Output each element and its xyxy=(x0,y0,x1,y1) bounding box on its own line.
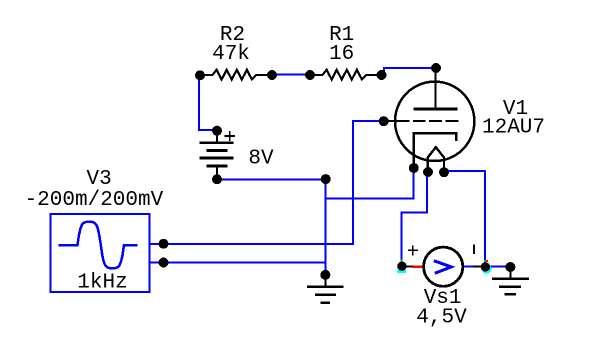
svg-text:V3: V3 xyxy=(86,168,111,191)
node V3 minus terminal xyxy=(159,258,169,268)
wire grid to V3 plus output xyxy=(165,121,382,244)
svg-text:4,5V: 4,5V xyxy=(416,307,467,330)
wire R2 left to battery plus xyxy=(199,78,215,130)
Vs1 minus terminal cyan highlight xyxy=(482,264,492,274)
battery plus sign xyxy=(225,131,235,141)
svg-text:1kHz: 1kHz xyxy=(77,272,127,295)
wire V3 plus stub xyxy=(150,243,162,245)
triode V1 anode lead xyxy=(435,68,437,109)
wire red segment Vs1 plus lead xyxy=(413,266,424,268)
resistor R2 xyxy=(203,70,269,80)
node anode pin xyxy=(431,63,441,73)
source Vs1 body xyxy=(424,247,463,286)
wire cathode to ground rail xyxy=(327,170,414,199)
node R2 pin 1 xyxy=(195,70,205,80)
wire Vs1 minus lead xyxy=(463,266,474,268)
triode V1 anode plate xyxy=(414,108,458,111)
node battery plus terminal xyxy=(212,126,222,136)
svg-text:47k: 47k xyxy=(212,43,250,66)
wire R1 right to anode node xyxy=(384,68,436,73)
Vs1 minus sign xyxy=(473,244,475,254)
wire R2 right to R1 left xyxy=(274,74,309,76)
node cathode pin xyxy=(409,163,419,173)
triode V1 heater xyxy=(428,147,444,170)
node Vs1 minus terminal xyxy=(481,262,490,271)
node R1 pin 1 xyxy=(305,70,315,80)
node battery minus terminal xyxy=(212,174,222,184)
ground right xyxy=(492,268,529,294)
wire colour marks at Vs1 minus xyxy=(484,260,486,262)
ground middle xyxy=(307,276,344,303)
source V3 box xyxy=(51,214,150,292)
wire black stub Vs1 plus terminal xyxy=(407,266,414,268)
wire heater pin2 to Vs1 minus xyxy=(446,171,485,263)
battery 8V xyxy=(199,133,233,177)
wire V3 minus to ground rail xyxy=(150,262,327,264)
node heater pin 2 xyxy=(439,167,449,177)
node junction battery minus / ground rail xyxy=(321,174,331,184)
wire black stub Vs1 minus terminal xyxy=(473,266,481,268)
svg-text:12AU7: 12AU7 xyxy=(482,117,545,140)
node Vs1 plus terminal xyxy=(397,262,406,271)
node R1 pin 2 xyxy=(377,70,387,80)
wire heater pin1 to Vs1 plus xyxy=(402,173,428,260)
Vs1 plus sign xyxy=(408,245,418,255)
source V3 sine waveform xyxy=(59,222,138,269)
node ground middle junction xyxy=(320,270,330,280)
node grid pin xyxy=(379,116,389,126)
wire battery minus to ground rail xyxy=(219,179,326,181)
triode V1 cathode xyxy=(414,133,456,165)
resistor R1 xyxy=(313,70,379,80)
wire Vs1 minus to right ground xyxy=(489,266,509,268)
triode V1 grid dashes xyxy=(413,120,459,122)
Vs1 plus terminal cyan highlight xyxy=(397,270,406,273)
svg-text:-200m/200mV: -200m/200mV xyxy=(25,189,164,212)
node V3 plus terminal xyxy=(159,239,169,249)
source Vs1 arrow glyph xyxy=(434,261,452,274)
wire green segment at Vs1 plus xyxy=(401,260,403,263)
triode V1 grid lead xyxy=(386,120,410,122)
svg-text:8V: 8V xyxy=(248,148,274,171)
node R2 pin 2 xyxy=(267,70,277,80)
node ground right junction xyxy=(505,262,515,272)
node heater pin 1 xyxy=(423,167,433,177)
triode V1 envelope xyxy=(395,82,474,161)
svg-text:16: 16 xyxy=(329,43,354,66)
wire ground rail vertical xyxy=(325,180,327,275)
